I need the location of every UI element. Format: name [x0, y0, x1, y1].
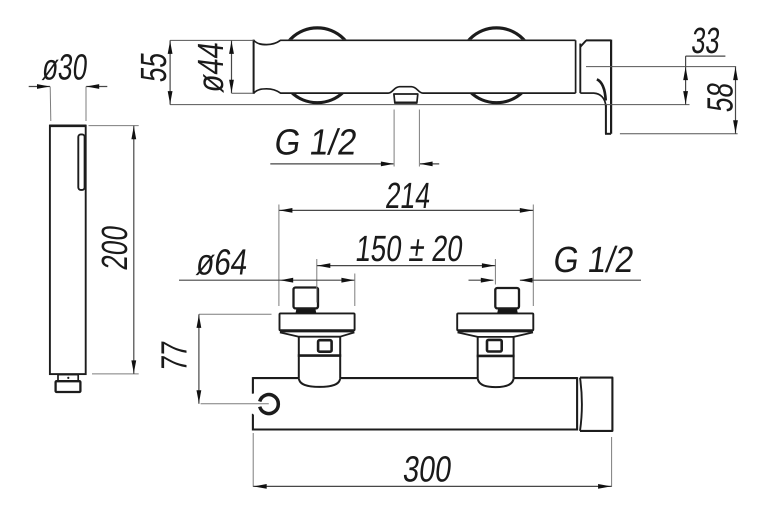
svg-text:214: 214 [384, 175, 433, 216]
right skirt [458, 332, 534, 337]
right stem sides [477, 337, 479, 378]
label G 1/2 (top view) [272, 122, 360, 162]
left stem small square [318, 340, 332, 352]
200 ext bottom [92, 373, 139, 375]
cap inner arc [580, 378, 582, 431]
mixer bar (front view) fill [253, 378, 577, 430]
handle right edge (lever outer face) [610, 40, 612, 134]
right stem small square [487, 340, 502, 352]
svg-text:55: 55 [133, 50, 174, 84]
dia64 leader and dimension line [179, 279, 355, 281]
200 ext top [89, 125, 139, 127]
svg-text:ø44: ø44 [191, 39, 232, 94]
right stem divider [477, 355, 515, 358]
lever inner curve detail [597, 79, 606, 100]
dimension 58 vertical [735, 67, 737, 134]
G 1/2 extension lines (top view) [393, 110, 395, 167]
bar right end edge [576, 377, 578, 430]
right valve dome [478, 378, 514, 387]
dia30 extension lines [49, 87, 52, 122]
dimension 200 vertical [133, 126, 135, 374]
svg-text:33: 33 [690, 21, 722, 62]
svg-text:200: 200 [94, 223, 135, 272]
svg-text:G 1/2: G 1/2 [272, 122, 360, 162]
77 ext top (flange top plane) [199, 313, 272, 315]
ext line left flange edge (214 / dia64) [278, 205, 280, 307]
handle hub bottom edge [580, 92, 594, 94]
label dia44 [191, 39, 232, 94]
shower holder ring halo [250, 386, 287, 423]
dimension 300 [253, 485, 611, 487]
handle hub top edge [586, 39, 611, 41]
label 150 +- 20 [354, 228, 466, 268]
label 77 [153, 339, 194, 373]
dimension 33 vertical [685, 67, 687, 105]
left skirt [280, 332, 355, 336]
label 214 [384, 175, 433, 216]
shower holder ring (C shape) [260, 395, 279, 414]
label 55 [133, 50, 174, 84]
mixer bar body (top view) fill [253, 39, 577, 94]
hub-to-lever fillet [594, 93, 606, 107]
ext line: bar bottom to dia44 [232, 92, 254, 94]
left flange [280, 313, 355, 330]
label 58 [699, 80, 740, 114]
dimension 214 [279, 209, 533, 211]
dimension 55 line [169, 40, 171, 104]
label 300 [401, 448, 454, 489]
svg-text:ø64: ø64 [194, 243, 250, 283]
escutcheon circle left (top view) [280, 28, 355, 103]
dimension 150 +- 20 [317, 265, 496, 267]
valve boundary double lines at bar right end [575, 40, 577, 93]
escutcheon circle right (top view) [459, 28, 534, 103]
svg-text:300: 300 [401, 448, 454, 489]
ext line: bar top plane (55 box top) [170, 39, 254, 41]
lever bottom tip [605, 133, 611, 135]
svg-text:G 1/2: G 1/2 [551, 239, 637, 280]
300 ext lines [252, 433, 254, 487]
label dia64 [194, 243, 250, 283]
left stem divider [298, 354, 341, 357]
hand shower nut [56, 381, 81, 392]
label 33 [690, 21, 722, 62]
right collar (dark) [497, 308, 518, 313]
svg-text:58: 58 [699, 80, 740, 114]
dimension dia44 line [231, 40, 233, 93]
handle hub chamfer [580, 40, 586, 46]
left collar (dark) [296, 308, 317, 313]
77 ext bottom (into ring center) [201, 403, 269, 405]
collar dot [67, 377, 69, 379]
bar left end cap line [253, 40, 255, 94]
outlet nut bottom thick edge [394, 101, 417, 103]
right connection nut [495, 288, 519, 308]
ext line 150 left (nut inner edge) [316, 259, 318, 303]
label 200 [94, 223, 135, 272]
svg-text:77: 77 [153, 339, 194, 373]
right flange bottom thick edge [458, 329, 533, 332]
label G 1/2 (front view) [551, 239, 637, 280]
hand shower body [50, 126, 86, 374]
G 1/2 nut arrows (front view) [469, 279, 494, 281]
left valve dome [299, 378, 340, 387]
svg-text:150 ± 20: 150 ± 20 [354, 228, 466, 268]
dia64 right ext line [354, 274, 356, 307]
label dia30 [40, 46, 90, 87]
outlet nut (top view) [394, 94, 418, 103]
ext line: outlet bottom plane, long reference [170, 104, 689, 106]
bar top edge with end scallop [254, 40, 576, 44]
hand shower clip [78, 134, 84, 190]
svg-text:ø30: ø30 [40, 46, 90, 87]
dia30 dimension lines [29, 86, 50, 88]
ext line 150 right (nut inner edge) [494, 259, 496, 285]
hand shower collar [58, 375, 78, 382]
ext line right flange edge (214) [532, 205, 534, 307]
right end cap [580, 378, 612, 431]
left connection nut [294, 288, 319, 309]
bar bottom edge [253, 428, 577, 430]
bar centerline reference [586, 66, 736, 68]
lever inner edge [605, 105, 607, 134]
bar bottom edge with scallop and outlet boss arch [254, 87, 576, 93]
right flange [457, 313, 533, 330]
33 leader underline [686, 55, 726, 57]
bar top edge segments [253, 377, 299, 379]
bar left edge with gap for holder ring [252, 377, 254, 394]
left stem sides [298, 337, 300, 378]
dimension 77 vertical [198, 314, 200, 404]
hand shower top cap thick edge [49, 124, 86, 127]
G 1/2 leader (top view) [270, 163, 393, 165]
handle tip reference line [620, 133, 738, 135]
left flange bottom thick edge [280, 329, 354, 332]
